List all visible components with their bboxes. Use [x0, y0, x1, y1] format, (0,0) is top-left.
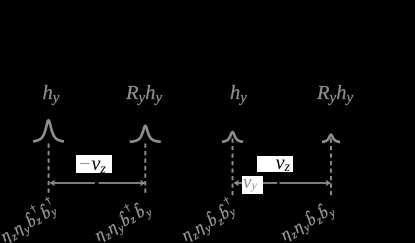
peak 4 (smallest, under right R_y h_y) [322, 135, 340, 142]
label h_y (left group) [43, 83, 60, 104]
label R_y h_y (left group) [126, 83, 162, 104]
arrow nu_z / nu_y (right group) [235, 182, 277, 184]
box nu_z [257, 156, 293, 173]
dashed vline 1 [48, 144, 50, 197]
dashed vline 4 [330, 139, 332, 197]
peak 2 (under left R_y h_y) [130, 126, 161, 142]
rotated label eta_z eta_y bdag_z b_y [92, 199, 154, 243]
rotated label eta_z eta_y b_z bdag_y [179, 200, 241, 243]
box nu_y (gray text) [242, 176, 263, 194]
dashed vline 3 [232, 139, 234, 197]
rotated label eta_z eta_y b_z b_y [278, 201, 338, 243]
box -nu_z [76, 155, 112, 173]
arrow -nu_z (left group) [51, 182, 95, 184]
label h_y (right group) [230, 83, 247, 104]
dashed vline 2 [144, 144, 146, 197]
rotated label eta_z eta_y bdag_z bdag_y [0, 199, 62, 243]
peak 3 (small, under right h_y) [222, 132, 243, 142]
peak 1 (tall, under left h_y) [33, 120, 64, 141]
label R_y h_y (right group) [317, 83, 353, 104]
